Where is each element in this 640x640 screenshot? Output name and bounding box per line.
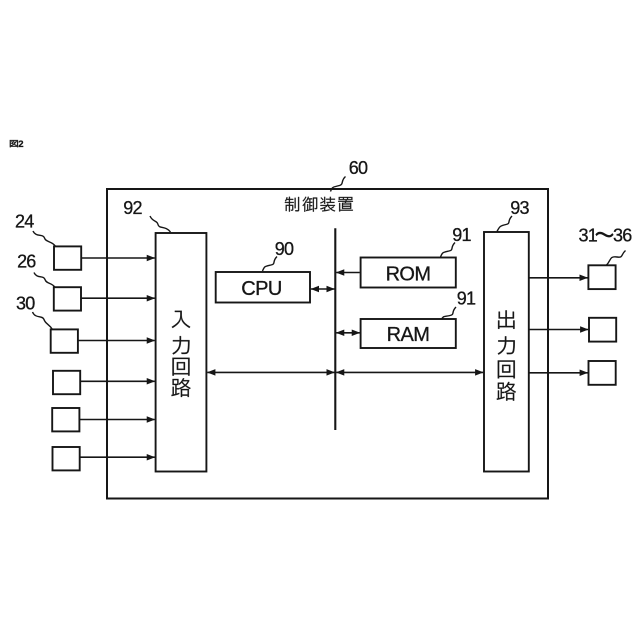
svg-text:24: 24 [15,211,34,231]
svg-text:91: 91 [452,225,471,245]
svg-text:90: 90 [275,239,294,259]
wire CPU to bus (bidirectional) [311,288,335,290]
svg-text:60: 60 [349,158,368,178]
svg-text:31: 31 [579,226,598,246]
leader squiggle for 91 (RAM) [442,307,457,320]
leader squiggle for 30 [33,312,53,330]
wire input device L4 to input circuit [80,380,155,382]
svg-text:30: 30 [16,294,35,314]
wire bus to ROM (arrow toward bus) [336,272,360,274]
figure caption 図2 [10,140,18,147]
wire output circuit to output device R1 [529,277,588,279]
CPU box 90 [216,272,310,303]
svg-text:CPU: CPU [241,278,281,300]
leader squiggle for 24 [33,231,56,246]
ROM box 91 [361,258,456,288]
wire input circuit to bus (bidirectional) [207,371,334,373]
svg-text:ROM: ROM [386,264,431,286]
wire input device L1 to input circuit [81,257,155,259]
output device box R1 [588,265,615,289]
wire bus to output circuit (bidirectional) [336,371,483,373]
wire output circuit to output device R2 [529,329,588,331]
svg-text:26: 26 [17,252,36,272]
title 制御装置 [285,197,353,212]
leader squiggle for 26 [34,273,55,288]
wire bus to RAM (bidirectional) [336,332,360,334]
svg-text:91: 91 [457,289,476,309]
output circuit box 93 (出力回路) [484,232,529,472]
wire output circuit to output device R3 [529,372,588,374]
controller outer box 60 (制御装置) [107,189,548,499]
leader squiggle for 93 [497,216,512,232]
svg-text:RAM: RAM [387,324,430,346]
RAM box 91 [361,319,456,348]
leader squiggle for 91 (ROM) [441,243,456,258]
leader squiggle for 60 [331,177,346,192]
text 入力回路 (vertical) [171,311,190,397]
input device box L4 [53,371,80,394]
leader squiggle for 90 [263,257,278,272]
label 31〜36 [579,226,633,246]
text 出力回路 (vertical) [497,310,516,400]
wire input device L2 to input circuit [81,297,155,299]
svg-text:93: 93 [510,198,529,218]
wire input device L3 to input circuit [78,340,155,342]
svg-text:2: 2 [18,139,23,150]
input device box L5 [52,408,79,431]
input device box L3 [51,329,78,352]
wire input device L6 to input circuit [80,456,155,458]
leader squiggle for 31〜36 [607,251,626,266]
leader squiggle for 92 [150,216,171,232]
input circuit box 92 (入力回路) [156,233,207,472]
output device box R3 [589,361,616,385]
wire input device L5 to input circuit [79,419,154,421]
system bus line [334,228,336,430]
svg-text:92: 92 [123,198,142,218]
input device box L6 [53,447,80,470]
svg-text:36: 36 [613,226,632,246]
output device box R2 [589,318,616,342]
input device box L2 [54,287,81,310]
input device box L1 [54,246,81,269]
